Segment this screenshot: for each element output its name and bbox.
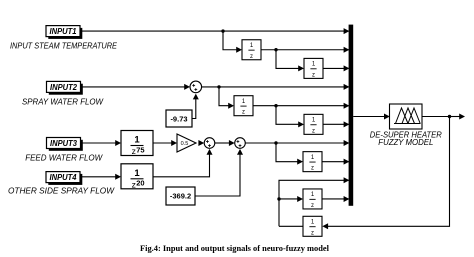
- svg-text:INPUT STEAM TEMPERATURE: INPUT STEAM TEMPERATURE: [10, 40, 117, 50]
- svg-text:-369.2: -369.2: [170, 192, 191, 201]
- svg-text:z: z: [312, 128, 315, 134]
- svg-text:-9.73: -9.73: [170, 115, 187, 124]
- svg-text:z: z: [250, 54, 253, 60]
- svg-text:INPUT2: INPUT2: [50, 83, 78, 92]
- svg-text:SPRAY WATER FLOW: SPRAY WATER FLOW: [22, 96, 104, 106]
- svg-text:OTHER SIDE SPRAY FLOW: OTHER SIDE SPRAY FLOW: [8, 186, 115, 196]
- svg-text:z: z: [242, 110, 245, 116]
- svg-text:z: z: [312, 72, 315, 78]
- svg-text:20: 20: [136, 179, 144, 188]
- svg-text:0.5: 0.5: [181, 141, 189, 147]
- svg-text:INPUT4: INPUT4: [50, 173, 78, 182]
- svg-text:z: z: [311, 230, 314, 236]
- svg-text:75: 75: [136, 145, 144, 154]
- svg-text:z: z: [311, 166, 314, 172]
- svg-text:INPUT3: INPUT3: [50, 139, 78, 148]
- svg-text:FUZZY MODEL: FUZZY MODEL: [378, 138, 433, 147]
- svg-text:z: z: [311, 203, 314, 209]
- svg-text:INPUT1: INPUT1: [50, 27, 78, 36]
- svg-text:1: 1: [134, 168, 140, 179]
- svg-text:FEED WATER FLOW: FEED WATER FLOW: [25, 152, 103, 162]
- svg-text:Fig.4: Input and output signal: Fig.4: Input and output signals of neuro…: [140, 244, 330, 253]
- svg-text:1: 1: [134, 135, 140, 146]
